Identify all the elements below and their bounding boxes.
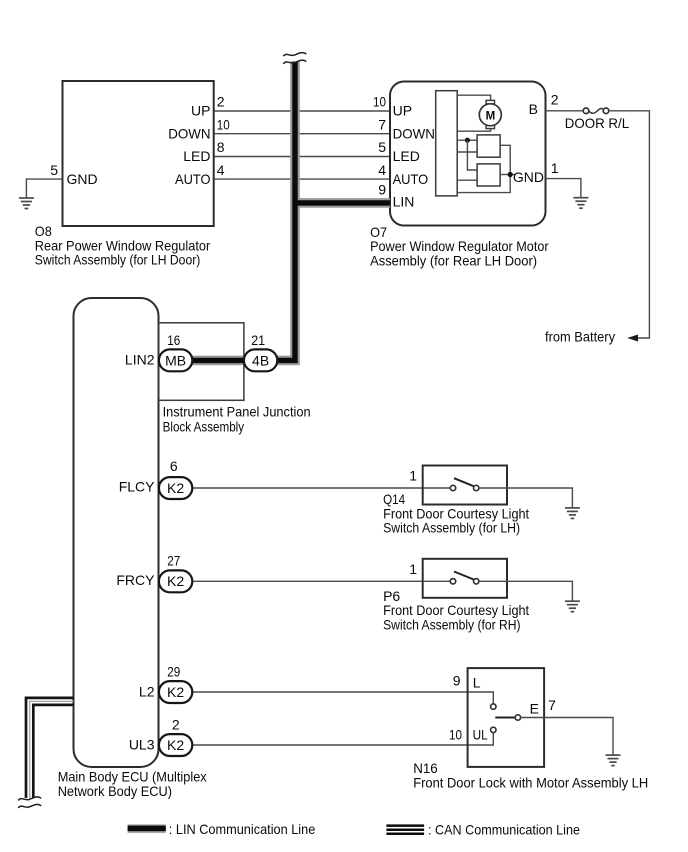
svg-text:Block Assembly: Block Assembly xyxy=(163,419,245,435)
Q14 switch circle right xyxy=(474,485,479,490)
break squiggle bottom wave 1 xyxy=(18,797,41,801)
svg-text:21: 21 xyxy=(251,332,265,348)
wire B to battery xyxy=(609,111,650,338)
svg-text:4B: 4B xyxy=(252,352,269,368)
wire GND O7 pin1 xyxy=(546,179,581,198)
wire motor top xyxy=(457,95,490,100)
svg-text:B: B xyxy=(529,101,538,117)
Instrument Panel Junction Block box xyxy=(158,323,244,401)
O8 designation label xyxy=(35,223,211,267)
Q14 switch circle left xyxy=(450,485,455,490)
svg-text:from Battery: from Battery xyxy=(545,328,615,344)
svg-text:Switch Assembly (for LH Door): Switch Assembly (for LH Door) xyxy=(35,252,201,268)
svg-text:GND: GND xyxy=(67,171,98,187)
P6 switch lever xyxy=(454,572,474,580)
wire B to connector xyxy=(546,110,584,112)
connector oval 4B xyxy=(244,349,277,371)
Main Body ECU label xyxy=(58,768,207,799)
svg-text:: CAN Communication Line: : CAN Communication Line xyxy=(428,822,580,838)
junction dot A xyxy=(465,138,470,143)
svg-text:K2: K2 xyxy=(167,480,184,496)
svg-text:UP: UP xyxy=(393,103,412,119)
svg-text:Network Body ECU): Network Body ECU) xyxy=(58,783,172,799)
svg-text:LED: LED xyxy=(393,148,420,164)
LIN communication line (thick) xyxy=(192,62,390,361)
Q14 designation label xyxy=(383,491,529,535)
svg-text:8: 8 xyxy=(217,139,225,155)
connector DOOR R/L circle 1 xyxy=(583,108,589,114)
N16 contact circle E xyxy=(515,715,520,720)
wire LED (O8 pin8 to O7 pin5) xyxy=(214,156,390,158)
svg-text:9: 9 xyxy=(453,673,461,689)
svg-text:LIN: LIN xyxy=(393,194,415,210)
connector oval K2 FRCY xyxy=(159,570,192,592)
svg-text:FRCY: FRCY xyxy=(116,572,155,588)
Q14 switch lever xyxy=(454,478,474,486)
svg-text:1: 1 xyxy=(551,160,559,176)
arrow from battery xyxy=(627,335,638,342)
svg-text:Switch Assembly (for RH): Switch Assembly (for RH) xyxy=(383,616,520,632)
svg-text:7: 7 xyxy=(378,116,386,132)
wire DOWN (O8 pin10 to O7 pin7) xyxy=(214,133,390,135)
Instrument Panel Junction Block label xyxy=(163,404,311,435)
legend LIN bar xyxy=(128,824,166,833)
svg-text:DOWN: DOWN xyxy=(393,125,435,141)
svg-text:5: 5 xyxy=(378,139,386,155)
svg-text:4: 4 xyxy=(217,162,225,178)
svg-text:LED: LED xyxy=(183,148,210,164)
CAN communication line (double) xyxy=(26,698,74,798)
N16 contact circle L xyxy=(491,704,496,709)
wire motor bottom xyxy=(457,129,490,132)
connector oval MB xyxy=(159,349,192,371)
svg-text:E: E xyxy=(530,700,539,716)
svg-text:K2: K2 xyxy=(167,684,184,700)
O7 pin labels xyxy=(393,101,544,210)
svg-text:27: 27 xyxy=(167,553,180,569)
N16 pin numbers xyxy=(449,673,556,743)
relay block 1 xyxy=(477,135,500,157)
svg-text:9: 9 xyxy=(378,182,386,198)
svg-text:LIN2: LIN2 xyxy=(125,352,155,368)
svg-text:UL: UL xyxy=(473,726,488,742)
svg-text:5: 5 xyxy=(50,162,58,178)
O8 pin labels xyxy=(67,103,211,187)
switch O8 box xyxy=(63,81,214,226)
ground (P6) xyxy=(565,601,580,612)
connector DOOR R/L wave xyxy=(589,108,604,113)
svg-text:10: 10 xyxy=(217,116,230,132)
break squiggle top wave 2 xyxy=(283,60,306,64)
motor assembly O7 box xyxy=(390,82,546,226)
svg-text:GND: GND xyxy=(513,169,544,185)
N16 lever xyxy=(495,717,515,719)
svg-text:Assembly (for Rear LH Door): Assembly (for Rear LH Door) xyxy=(370,252,537,268)
wire to relay1 lower xyxy=(457,151,477,153)
wire GND O8 pin5 xyxy=(26,179,62,198)
wire dot A to relay2 xyxy=(467,140,477,170)
svg-text:10: 10 xyxy=(373,94,386,110)
O7 internal connector bar xyxy=(436,91,458,196)
wire AUTO (O8 pin4 to O7 pin4) xyxy=(214,178,390,180)
ground (N16) xyxy=(606,755,621,766)
connector oval K2 FLCY xyxy=(159,477,192,499)
connector oval K2 UL3 xyxy=(159,734,192,756)
motor M1 top cap xyxy=(486,100,494,104)
connector oval K2 L2 xyxy=(159,681,192,703)
N16 pin labels xyxy=(473,674,539,742)
svg-text:2: 2 xyxy=(551,91,559,107)
svg-text:MB: MB xyxy=(165,352,186,368)
svg-text:2: 2 xyxy=(172,717,180,733)
P6 switch circle right xyxy=(474,579,479,584)
ground (Q14) xyxy=(565,508,580,519)
P6 switch circle left xyxy=(450,579,455,584)
svg-text:AUTO: AUTO xyxy=(393,171,429,187)
wire UL3 xyxy=(192,733,493,745)
wire UP (O8 pin2 to O7 pin10) xyxy=(214,110,390,112)
wire E to ground xyxy=(521,718,613,756)
svg-text:1: 1 xyxy=(409,468,417,484)
wire Q14 to ground xyxy=(479,488,573,508)
O7 designation label xyxy=(370,224,549,268)
O7 pin numbers xyxy=(373,91,559,197)
wire FLCY xyxy=(192,487,450,489)
svg-text:1: 1 xyxy=(409,561,417,577)
svg-text:10: 10 xyxy=(449,726,462,742)
svg-text:Front Door Lock with Motor Ass: Front Door Lock with Motor Assembly LH xyxy=(413,774,648,790)
connector DOOR R/L circle 2 xyxy=(603,108,609,114)
N16 designation label xyxy=(413,760,648,790)
wire to relay2 lower xyxy=(457,179,477,181)
svg-text:Instrument Panel Junction: Instrument Panel Junction xyxy=(163,404,311,420)
motor M1 circle xyxy=(479,104,501,126)
ground (O8) xyxy=(19,198,34,209)
svg-text:6: 6 xyxy=(170,458,178,474)
wire P6 to ground xyxy=(479,581,573,601)
svg-text:29: 29 xyxy=(167,664,180,680)
svg-text:: LIN Communication Line: : LIN Communication Line xyxy=(169,821,316,837)
N16 contact circle UL xyxy=(491,727,496,732)
svg-text:16: 16 xyxy=(167,332,180,348)
wire to relay1 xyxy=(457,139,477,141)
svg-text:M: M xyxy=(486,111,496,123)
legend CAN bar xyxy=(386,824,424,835)
switch Q14 box xyxy=(423,466,507,505)
P6 designation label xyxy=(383,588,529,632)
svg-text:Switch Assembly (for LH): Switch Assembly (for LH) xyxy=(383,519,520,535)
wire L2 xyxy=(192,692,493,704)
junction dot B xyxy=(508,172,513,177)
break squiggle bottom wave 2 xyxy=(18,804,41,808)
switch P6 box xyxy=(423,559,507,598)
svg-text:L: L xyxy=(473,674,481,690)
ground (O7) xyxy=(573,198,588,209)
svg-text:DOWN: DOWN xyxy=(168,125,210,141)
O8 pin numbers xyxy=(50,94,230,178)
svg-text:L2: L2 xyxy=(139,683,155,699)
lock motor N16 box xyxy=(468,668,544,767)
wire FRCY xyxy=(192,580,450,582)
svg-text:DOOR R/L: DOOR R/L xyxy=(565,115,630,131)
svg-text:UL3: UL3 xyxy=(129,736,155,752)
svg-text:K2: K2 xyxy=(167,737,184,753)
motor M1 bottom cap xyxy=(486,125,494,129)
svg-text:2: 2 xyxy=(217,94,225,110)
svg-text:4: 4 xyxy=(378,162,386,178)
svg-text:UP: UP xyxy=(191,103,210,119)
wire relay2 to GND label xyxy=(500,174,514,176)
Main Body ECU box xyxy=(74,298,159,767)
svg-text:FLCY: FLCY xyxy=(119,479,155,495)
relay block 2 xyxy=(477,164,500,186)
wire relay1 right loop xyxy=(457,145,511,192)
svg-text:AUTO: AUTO xyxy=(175,171,211,187)
break squiggle top wave 1 xyxy=(283,53,306,57)
svg-text:K2: K2 xyxy=(167,573,184,589)
svg-text:7: 7 xyxy=(548,697,556,713)
